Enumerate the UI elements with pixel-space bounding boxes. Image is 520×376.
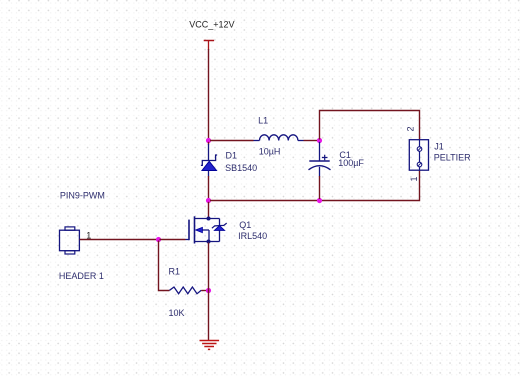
wire D1 anode to node C — [208, 176, 210, 200]
wire node E down to R1 left — [159, 241, 170, 291]
wire L1 right to node B — [304, 140, 319, 142]
diode D1 schottky SB1540 — [201, 142, 217, 177]
svg-text:IRL540: IRL540 — [238, 231, 267, 241]
node B junction — [317, 138, 322, 143]
power symbol VCC_+12V — [204, 41, 214, 51]
node A junction — [206, 138, 211, 143]
svg-text:R1: R1 — [169, 266, 181, 276]
inductor L1 — [254, 135, 304, 141]
connector HEADER 1 — [60, 227, 80, 254]
svg-text:2: 2 — [406, 126, 416, 131]
wire node E to Q1 gate — [160, 239, 186, 241]
svg-text:SB1540: SB1540 — [225, 163, 257, 173]
wire node C down to Q1 drain — [208, 202, 210, 218]
wire R1 right to node F — [201, 290, 207, 292]
svg-text:Q1: Q1 — [239, 220, 251, 230]
transistor Q1 IRL540 N-MOSFET — [186, 216, 227, 243]
resistor R1 — [170, 287, 202, 294]
svg-text:1: 1 — [409, 176, 419, 181]
svg-text:10µH: 10µH — [259, 146, 281, 156]
wire Q1 source down through node F to ground — [208, 243, 210, 341]
node D junction C1 bottom — [317, 198, 322, 203]
svg-text:PELTIER: PELTIER — [434, 153, 471, 163]
wire node B up and across to J1 pin 2 — [320, 111, 420, 141]
svg-text:VCC_+12V: VCC_+12V — [189, 20, 234, 30]
connector J1 — [409, 140, 428, 171]
wire C1 bottom to node D — [319, 176, 321, 199]
node F junction — [206, 288, 211, 293]
node C junction — [206, 198, 211, 203]
wire VCC vertical to node A — [208, 49, 210, 140]
node E junction — [156, 237, 161, 242]
svg-text:HEADER 1: HEADER 1 — [59, 271, 104, 281]
wire HEADER 1 pin to node E — [80, 239, 158, 241]
svg-text:D1: D1 — [226, 150, 238, 160]
capacitor C1 polarized — [309, 142, 331, 177]
svg-text:L1: L1 — [258, 116, 268, 126]
ground — [200, 341, 220, 350]
svg-text:PIN9-PWM: PIN9-PWM — [60, 190, 105, 200]
svg-text:10K: 10K — [169, 308, 185, 318]
svg-text:100µF: 100µF — [338, 158, 364, 168]
wire node A to L1 left — [210, 140, 254, 142]
wire bottom rail node C to J1 pin 1 corner — [210, 170, 420, 201]
svg-text:J1: J1 — [434, 142, 444, 152]
